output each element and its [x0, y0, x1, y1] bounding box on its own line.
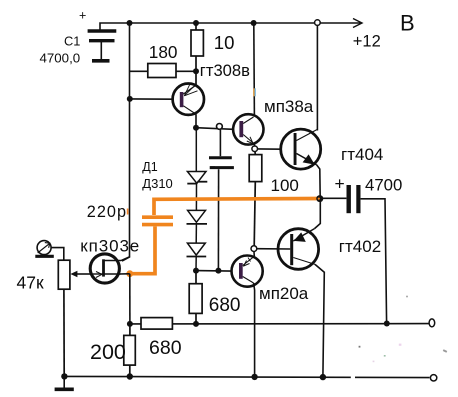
scan speck 3 [359, 346, 361, 348]
svg-text:мп20а: мп20а [259, 284, 309, 303]
svg-text:680: 680 [209, 295, 241, 316]
transistor mp20a [232, 256, 263, 287]
node dot rail-left [127, 20, 133, 26]
svg-text:+12: +12 [353, 32, 381, 50]
wire input to pot [51, 248, 64, 261]
svg-text:+: + [335, 174, 345, 194]
svg-text:4700: 4700 [365, 175, 402, 194]
potentiometer 47k [58, 260, 70, 376]
node dot rail-680 [193, 321, 199, 327]
wire source down [129, 274, 131, 324]
wire mp20a emitter stub [253, 252, 255, 257]
transistor gt404 [281, 129, 321, 169]
node open circle cap-top [217, 124, 223, 130]
capacitor 4700 output [320, 185, 387, 324]
node dot diode-bottom [193, 268, 199, 274]
wire gt308v base [130, 98, 173, 100]
wire left vertical bus [122, 23, 130, 261]
svg-text:C1: C1 [64, 34, 80, 49]
node dot rail-left [127, 321, 133, 327]
svg-text:220р: 220р [87, 203, 127, 221]
node dot rail-R10 [193, 20, 199, 26]
node dot diode-top [193, 125, 199, 131]
resistor 100 [249, 152, 262, 246]
svg-text:Д310: Д310 [142, 176, 173, 191]
diode D1a [187, 128, 207, 184]
input jack [35, 241, 54, 257]
wire to gt404 base [258, 148, 282, 150]
diode D1b [187, 183, 208, 224]
node dot rail-cap4700 [384, 321, 390, 327]
emitter arrow strokes (PNP into bar) [184, 86, 194, 96]
emitter arrow (NPN out) [247, 141, 253, 144]
node dot gnd-mp20a [251, 374, 257, 380]
resistor 200 [124, 324, 136, 376]
wire ground rail [64, 376, 429, 377]
wire output rail [130, 323, 429, 325]
svg-text:гт308в: гт308в [200, 61, 250, 80]
wire +12 top rail [100, 23, 361, 30]
node open circle mp20a-emitter [251, 246, 257, 252]
scan gap in ground rail [351, 375, 355, 379]
scan dash near D1 [210, 166, 215, 169]
wire kp303e source stub [119, 273, 129, 275]
gate arrow [96, 274, 102, 277]
wire gt404 emitter down [317, 165, 321, 199]
resistor 680 horizontal [141, 318, 172, 330]
wire mp38a base [196, 128, 233, 130]
scan speck 5 [373, 361, 375, 363]
svg-text:гт404: гт404 [341, 145, 383, 164]
diode D1c [187, 224, 207, 271]
pot wiper arrow [70, 271, 90, 278]
node open circle mp38a-emitter [252, 146, 258, 152]
svg-text:гт402: гт402 [339, 237, 381, 256]
resistor 10 [191, 23, 203, 85]
svg-text:10: 10 [214, 32, 235, 53]
node dot gnd-200 [127, 373, 133, 379]
svg-text:180: 180 [149, 42, 178, 62]
node dot R180-R10 [193, 68, 199, 74]
node dot rail-mp38a [251, 20, 257, 26]
svg-text:100: 100 [271, 176, 299, 195]
scan speck 4 [384, 355, 386, 357]
wire gt308v collector down [195, 115, 197, 128]
wire mp38a collector [253, 23, 256, 116]
node open circle rail-gt404 [315, 20, 321, 26]
resistor 680 vertical [189, 271, 202, 324]
svg-text:Д1: Д1 [142, 160, 157, 174]
node dot gnd-left [61, 373, 67, 379]
transistor gt308v [173, 84, 204, 115]
scan speck 6 [406, 296, 408, 298]
wire gt402 emitter up [315, 202, 321, 229]
svg-text:200: 200 [90, 340, 126, 364]
svg-text:680: 680 [149, 337, 182, 359]
scan tick on mp38a collector wire [253, 88, 254, 96]
svg-text:кп303е: кп303е [80, 237, 140, 256]
svg-text:В: В [400, 11, 415, 36]
svg-text:+: + [79, 8, 86, 22]
node dot cap-bottom [215, 268, 221, 274]
node orange dot kp303e source [126, 270, 133, 277]
wire mp20a collector down [254, 283, 255, 377]
svg-text:4700,0: 4700,0 [40, 51, 81, 66]
ground symbol [55, 377, 74, 390]
scan speck 1 [443, 349, 447, 353]
transistor kp303e [90, 254, 130, 283]
resistor 180 [130, 64, 197, 78]
node dot gnd-gt402 [320, 374, 326, 380]
node dot output-mid [316, 195, 323, 202]
scan tick after 220p label [127, 209, 129, 215]
wire to gt402 base [257, 248, 290, 250]
capacitor 220p orange [142, 217, 173, 224]
arrow +12 rail head [353, 19, 362, 28]
svg-text:47к: 47к [17, 273, 44, 293]
capacitor bias (unlabeled) [209, 130, 234, 271]
terminal output-top [429, 319, 435, 327]
node dot gt308v-base [127, 96, 133, 102]
wire mp38a emitter stub [253, 144, 255, 146]
scan speck 2 [399, 344, 402, 346]
wire gt402 collector down [315, 264, 324, 376]
gt404 emitter arrow [303, 154, 315, 164]
wire gt404 collector [316, 25, 318, 131]
terminal output-bottom [430, 375, 436, 381]
svg-text:мп38а: мп38а [264, 97, 314, 116]
mp20a emitter arrow (PNP into bar) [244, 264, 250, 267]
wire orange coupling path [131, 199, 320, 274]
capacitor C1 [88, 31, 117, 61]
gt402 emitter arrow (PNP into bar) [294, 232, 306, 242]
transistor gt402 [278, 229, 319, 270]
wire mp20a base [196, 270, 232, 273]
transistor mp38a [233, 114, 263, 144]
